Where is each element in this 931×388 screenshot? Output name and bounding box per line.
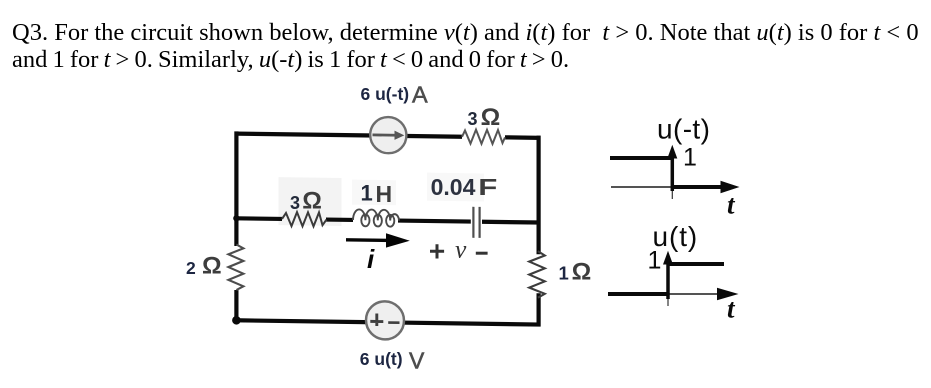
wire bottom xyxy=(235,320,541,324)
inductor 1H coil bumps xyxy=(353,209,399,220)
scan artifact light box behind 1H xyxy=(352,180,396,206)
label plus xyxy=(430,244,444,258)
svg-text:3: 3 xyxy=(290,193,300,213)
resistor 3ohm middle zigzag xyxy=(282,212,327,227)
resistor 1ohm right zigzag xyxy=(529,251,545,298)
wire left vertical xyxy=(234,131,238,246)
svg-text:v: v xyxy=(455,235,467,264)
graph u(t) axis thin xyxy=(668,293,719,295)
svg-text:Ω: Ω xyxy=(572,259,592,286)
svg-text:1: 1 xyxy=(683,144,697,172)
resistor 2ohm left zigzag xyxy=(228,244,243,290)
svg-text:Ω: Ω xyxy=(481,104,501,131)
svg-text:3: 3 xyxy=(468,109,478,129)
svg-text:A: A xyxy=(412,81,428,107)
wire middle right of capacitor xyxy=(482,220,539,225)
voltage source circle xyxy=(366,301,404,340)
svg-text:t: t xyxy=(727,190,736,220)
svg-text:u(-t): u(-t) xyxy=(657,114,710,145)
scan artifact light box behind 0.04F xyxy=(427,173,484,202)
svg-text:Ω: Ω xyxy=(302,188,322,215)
node junction dot bottom-left xyxy=(232,316,241,325)
graph u(-t) level-1 line xyxy=(610,156,672,160)
svg-text:t: t xyxy=(727,294,736,324)
node junction dot middle-left xyxy=(233,215,239,221)
graph u(t) level-1 line xyxy=(668,262,725,266)
svg-text:1: 1 xyxy=(559,262,569,283)
graph u(t) zero-level thick xyxy=(608,292,669,296)
wire right vertical lower xyxy=(536,293,540,326)
graph u(-t) step vertical with up arrow xyxy=(671,154,675,191)
voltage source plus sign xyxy=(370,313,383,326)
current arrow i xyxy=(346,238,391,242)
svg-text:Ω: Ω xyxy=(202,253,222,280)
current source circle xyxy=(370,117,406,154)
svg-text:V: V xyxy=(409,348,425,374)
wire right vertical xyxy=(536,136,540,255)
graph u(t) step vertical with up arrow xyxy=(666,261,670,299)
wire middle between inductor and capacitor xyxy=(398,221,471,222)
wire top-left segment xyxy=(236,134,462,137)
scan artifact light box behind 3ohm mid xyxy=(279,177,342,226)
label minus xyxy=(476,252,488,255)
svg-text:i: i xyxy=(367,244,375,274)
wire middle between resistor and inductor xyxy=(326,217,353,222)
svg-text:H: H xyxy=(376,181,393,207)
svg-text:6 u(t): 6 u(t) xyxy=(360,349,403,369)
problem statement text xyxy=(12,19,919,73)
current source arrow xyxy=(373,134,398,137)
svg-text:1: 1 xyxy=(361,181,373,206)
svg-text:6 u(-t): 6 u(-t) xyxy=(361,84,410,104)
wire top-right segment xyxy=(505,135,541,140)
inductor 1H small loops xyxy=(361,214,369,226)
graph u(-t) axis thick segment xyxy=(671,185,722,189)
svg-text:0.04: 0.04 xyxy=(431,174,476,200)
voltage source minus sign xyxy=(388,321,399,324)
capacitor 0.04F plates xyxy=(472,207,474,238)
wire left vertical lower xyxy=(234,290,238,322)
svg-text:1: 1 xyxy=(648,247,662,275)
graph u(-t) axis thin xyxy=(611,186,672,188)
svg-text:2: 2 xyxy=(186,258,196,278)
resistor 3ohm top zigzag xyxy=(462,129,505,144)
svg-text:F: F xyxy=(478,174,497,200)
wire middle left xyxy=(236,216,282,221)
